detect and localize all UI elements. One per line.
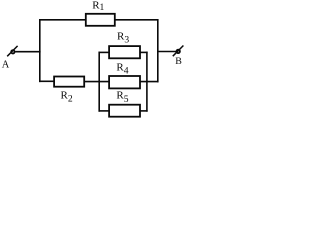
terminal A xyxy=(7,46,17,56)
wire R2 to parallel block xyxy=(84,81,109,83)
wire parallel-block left bus xyxy=(98,52,100,112)
svg-text:B: B xyxy=(175,56,182,67)
resistor R4 xyxy=(109,76,140,88)
svg-text:R1: R1 xyxy=(92,0,104,13)
resistor R1 xyxy=(86,14,115,26)
wire right bus vertical xyxy=(157,19,159,82)
wire bottom left segment xyxy=(39,80,54,82)
wire left bus vertical xyxy=(39,19,41,82)
wire parallel-block right bus xyxy=(146,52,148,112)
wire R4 right stub xyxy=(140,81,158,83)
wire right bus to B xyxy=(157,51,176,53)
wire R5 left stub xyxy=(99,110,110,112)
wire R5 right stub xyxy=(140,110,148,112)
svg-text:A: A xyxy=(2,59,10,70)
wire A to left bus xyxy=(15,51,40,53)
resistor R3 xyxy=(109,46,140,58)
resistor R5 xyxy=(109,105,140,117)
wire top right segment xyxy=(115,19,158,21)
resistor R2 xyxy=(54,77,84,87)
terminal B xyxy=(173,46,184,57)
wire R3 left stub xyxy=(99,51,110,53)
wire top left segment xyxy=(39,19,86,21)
wire R3 right stub xyxy=(140,51,148,53)
